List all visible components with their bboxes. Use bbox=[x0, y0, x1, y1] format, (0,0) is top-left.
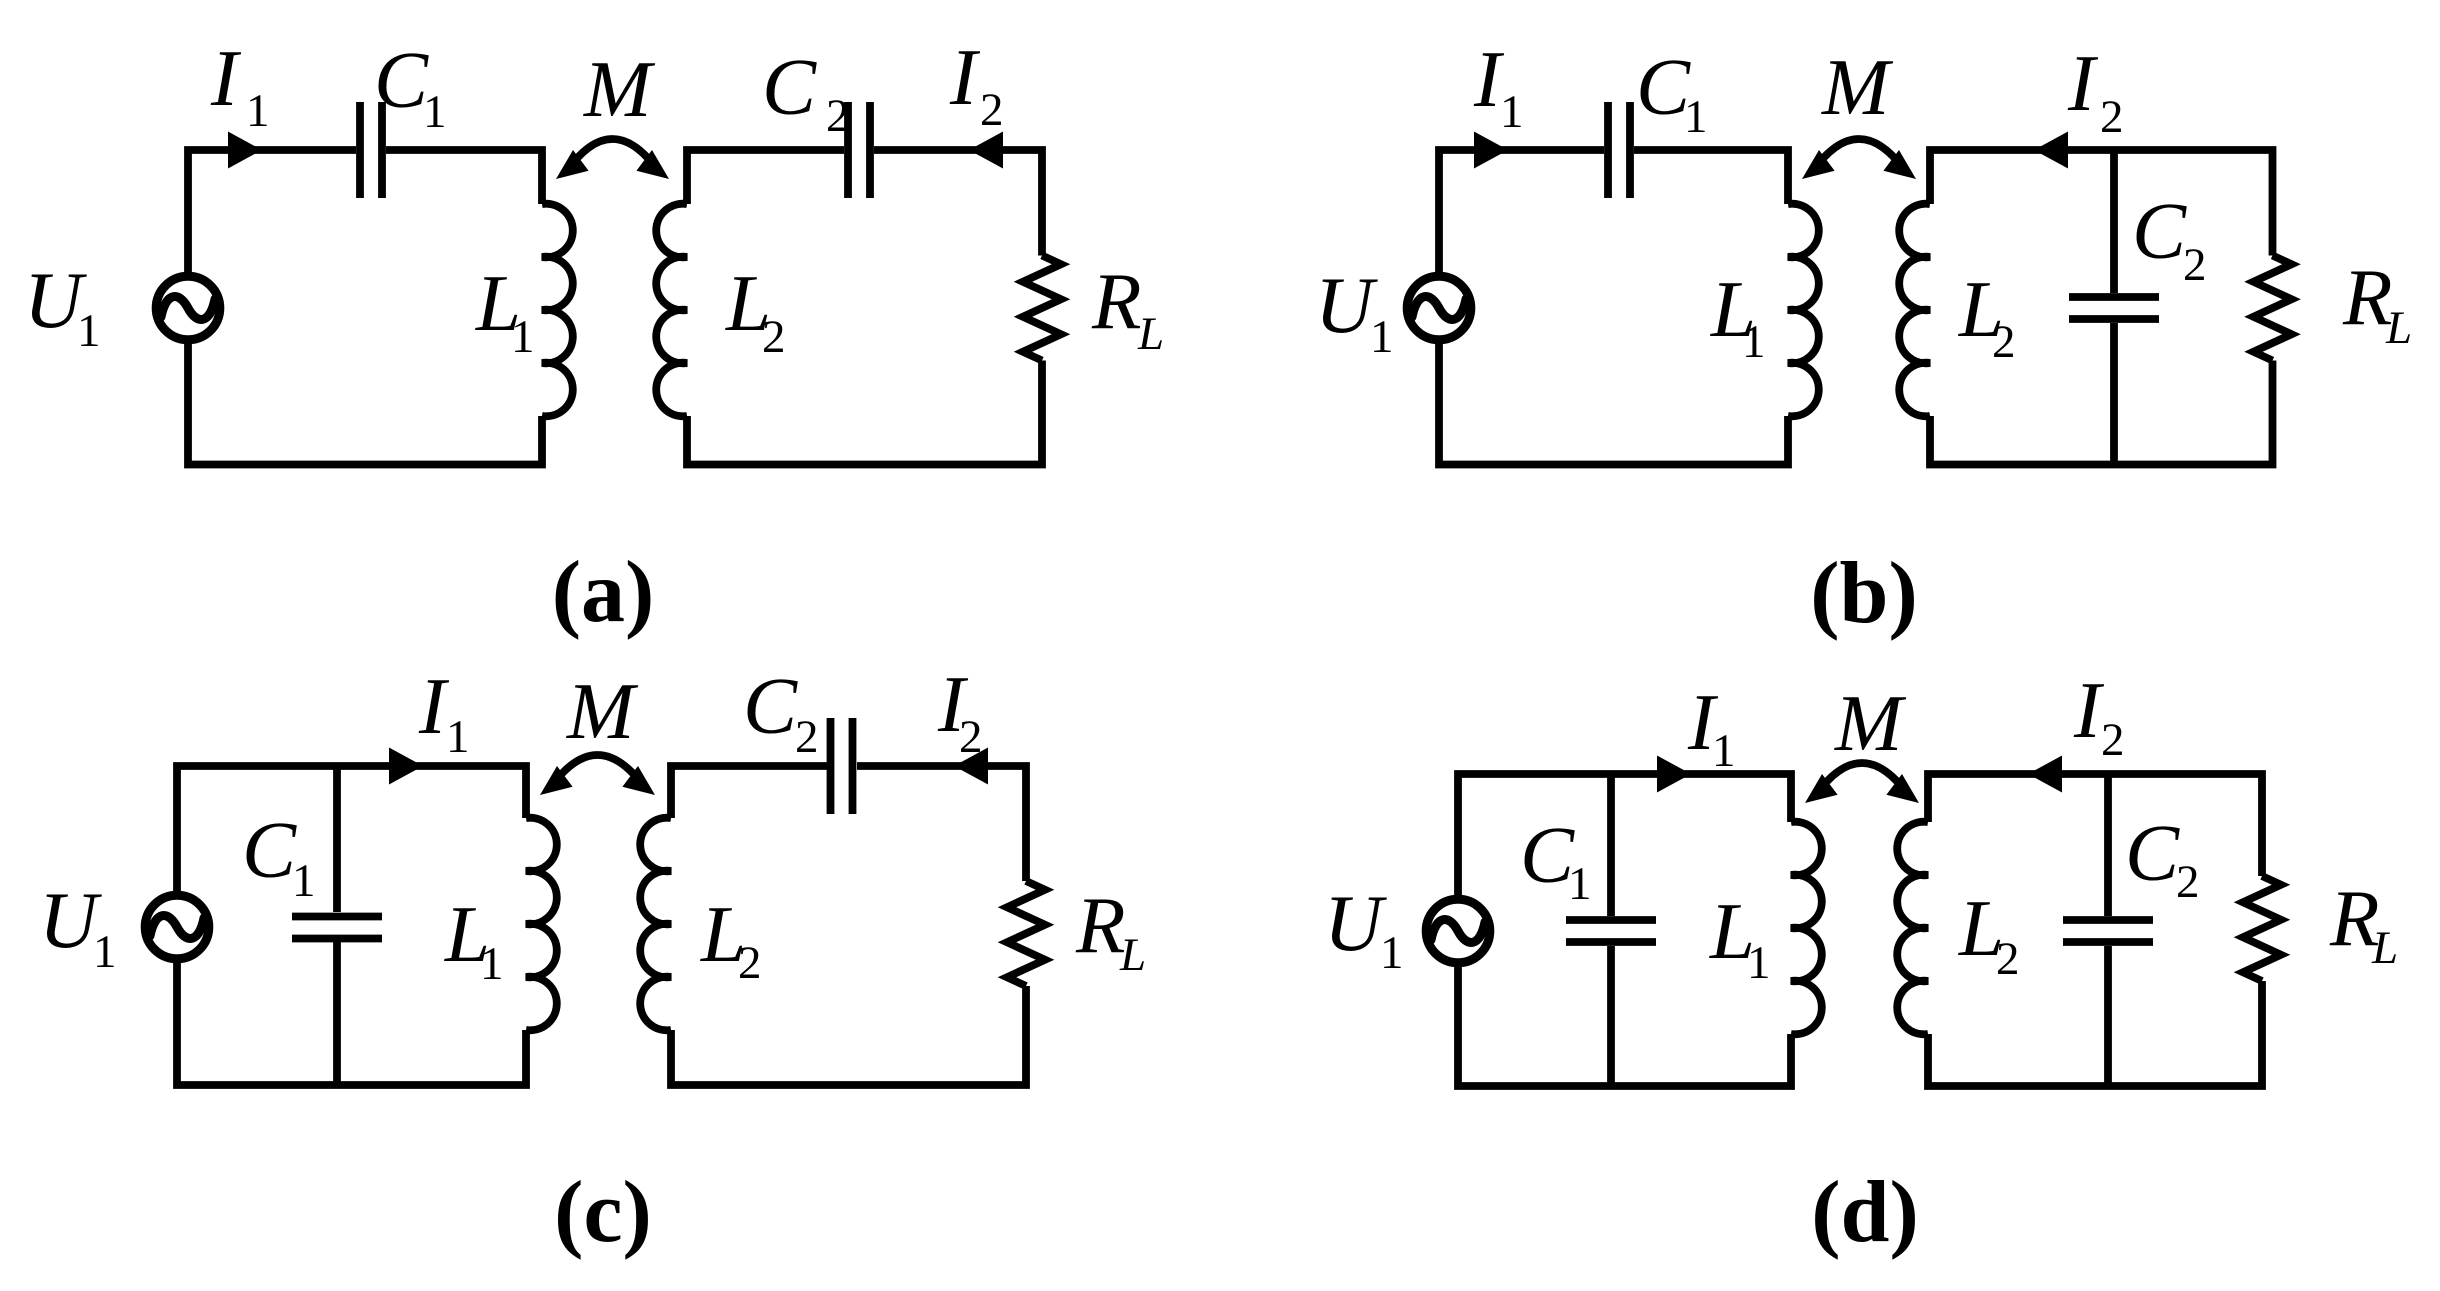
AC source U1 bbox=[145, 895, 209, 959]
svg-text:2: 2 bbox=[738, 937, 762, 989]
wire (d): C2 branch lower bbox=[2104, 946, 2112, 1086]
wire (b): L2 top to RL bbox=[1930, 150, 2273, 256]
svg-text:L: L bbox=[2385, 302, 2412, 354]
svg-text:M: M bbox=[566, 666, 639, 756]
svg-text:1: 1 bbox=[480, 938, 504, 990]
wire (c): RL to bottom to L2 bbox=[671, 986, 1026, 1085]
svg-text:(a): (a) bbox=[552, 544, 655, 641]
arrow I2 bbox=[2028, 756, 2062, 793]
svg-text:2: 2 bbox=[2176, 856, 2200, 908]
svg-text:L: L bbox=[1119, 929, 1146, 981]
wire (a): C2 to RL bbox=[874, 150, 1042, 256]
svg-text:U: U bbox=[1324, 878, 1387, 968]
svg-text:1: 1 bbox=[1568, 858, 1592, 910]
svg-text:C: C bbox=[1636, 42, 1691, 132]
wire (c): C2 to RL bbox=[857, 766, 1026, 881]
wire (d): C2 branch upper bbox=[2104, 774, 2112, 916]
inductor L2 bbox=[1899, 204, 1930, 417]
svg-text:C: C bbox=[743, 661, 798, 751]
arrow I2 bbox=[2034, 132, 2068, 169]
wire (c): L1 to bottom to source bbox=[177, 961, 526, 1086]
svg-text:1: 1 bbox=[1747, 937, 1771, 989]
arrow I1 bbox=[1474, 132, 1508, 169]
wire (c): C1 branch lower bbox=[333, 942, 341, 1085]
svg-text:C: C bbox=[242, 805, 297, 895]
wire (a): L1 to bottom to source bbox=[188, 342, 542, 465]
svg-text:(c): (c) bbox=[554, 1164, 652, 1261]
wire (b): RL to bottom to L2 bbox=[1930, 361, 2273, 465]
svg-text:1: 1 bbox=[423, 86, 447, 138]
svg-text:(b): (b) bbox=[1810, 545, 1918, 642]
AC source U1 bbox=[1426, 899, 1490, 963]
wire (a): C1 to L1 bbox=[386, 150, 542, 204]
svg-text:1: 1 bbox=[1742, 316, 1766, 368]
wire (c): source to top to L1 bbox=[177, 766, 526, 894]
arrow I1 bbox=[1657, 756, 1691, 793]
wire (d): C1 branch lower bbox=[1607, 946, 1615, 1086]
svg-text:2: 2 bbox=[2183, 239, 2207, 291]
capacitor C2 bbox=[844, 102, 852, 198]
inductor L1 bbox=[1788, 204, 1819, 417]
wire (b): C2 branch lower bbox=[2110, 323, 2118, 465]
arrow I2 bbox=[969, 132, 1003, 169]
svg-text:1: 1 bbox=[1712, 725, 1736, 777]
svg-text:2: 2 bbox=[795, 711, 819, 763]
wire (b): source to C1 bbox=[1439, 150, 1604, 275]
wire (d): L1 to bottom to source bbox=[1458, 965, 1791, 1087]
wire (c): C1 branch upper bbox=[333, 766, 341, 912]
svg-text:M: M bbox=[1834, 678, 1907, 768]
svg-text:2: 2 bbox=[1992, 316, 2016, 368]
mutual inductance M arrow bbox=[1812, 139, 1906, 172]
capacitor C1 bbox=[292, 913, 382, 921]
svg-text:1: 1 bbox=[511, 311, 535, 363]
svg-text:C: C bbox=[2125, 808, 2180, 898]
svg-text:1: 1 bbox=[292, 855, 316, 907]
AC source U1 bbox=[1407, 276, 1471, 340]
svg-text:C: C bbox=[1520, 810, 1575, 900]
svg-text:I: I bbox=[949, 32, 981, 122]
svg-text:1: 1 bbox=[446, 711, 470, 763]
svg-text:1: 1 bbox=[1500, 86, 1524, 138]
svg-text:C: C bbox=[2132, 186, 2187, 276]
resistor RL bbox=[1007, 881, 1045, 986]
mutual inductance M arrow bbox=[550, 755, 645, 788]
wire (d): L2 top to RL bbox=[1928, 774, 2262, 876]
svg-text:R: R bbox=[1091, 256, 1141, 346]
svg-text:2: 2 bbox=[959, 711, 983, 763]
svg-text:2: 2 bbox=[2101, 714, 2125, 766]
svg-text:I: I bbox=[2067, 38, 2099, 128]
svg-text:I: I bbox=[210, 33, 242, 123]
wire (d): source to top to L1 bbox=[1458, 774, 1791, 898]
wire (b): L1 to bottom to source bbox=[1439, 342, 1788, 465]
svg-text:2: 2 bbox=[1996, 933, 2020, 985]
capacitor C2 bbox=[827, 718, 835, 814]
svg-text:1: 1 bbox=[77, 305, 101, 357]
svg-text:C: C bbox=[374, 35, 429, 125]
inductor L2 bbox=[656, 204, 687, 417]
svg-text:2: 2 bbox=[826, 90, 850, 142]
inductor L2 bbox=[1897, 822, 1928, 1035]
svg-text:C: C bbox=[762, 42, 817, 132]
arrow I2 bbox=[954, 748, 988, 785]
inductor L2 bbox=[640, 818, 671, 1031]
svg-text:2: 2 bbox=[762, 311, 786, 363]
mutual inductance M arrow bbox=[566, 139, 659, 172]
capacitor C1 bbox=[356, 102, 364, 198]
svg-text:R: R bbox=[1075, 880, 1125, 970]
svg-text:R: R bbox=[2342, 252, 2392, 342]
svg-text:U: U bbox=[1315, 260, 1378, 350]
svg-text:2: 2 bbox=[980, 84, 1004, 136]
svg-text:1: 1 bbox=[93, 926, 117, 978]
svg-text:1: 1 bbox=[1370, 311, 1394, 363]
wire (d): C1 branch upper bbox=[1607, 774, 1615, 916]
inductor L1 bbox=[1791, 822, 1822, 1035]
arrow I1 bbox=[389, 748, 423, 785]
wire (a): RL to bottom to L2 bbox=[687, 361, 1042, 465]
AC source U1 bbox=[156, 276, 220, 340]
svg-text:2: 2 bbox=[2100, 91, 2124, 143]
svg-text:1: 1 bbox=[246, 85, 270, 137]
svg-text:(d): (d) bbox=[1811, 1164, 1919, 1261]
mutual inductance M arrow bbox=[1815, 763, 1909, 796]
svg-text:M: M bbox=[583, 44, 656, 134]
svg-text:1: 1 bbox=[1684, 91, 1708, 143]
inductor L1 bbox=[526, 818, 557, 1031]
wire (a): L2 to C2 bbox=[687, 150, 844, 204]
wire (a): source to C1 bbox=[188, 150, 356, 275]
capacitor C1 bbox=[1604, 102, 1612, 198]
resistor RL bbox=[2254, 256, 2292, 361]
resistor RL bbox=[2243, 876, 2281, 981]
wire (d): RL to bottom to L2 bbox=[1928, 981, 2262, 1086]
inductor L1 bbox=[542, 204, 573, 417]
wire (c): L2 to C2 bbox=[671, 766, 827, 818]
arrow I1 bbox=[228, 132, 262, 169]
svg-text:L: L bbox=[2371, 922, 2398, 974]
svg-text:1: 1 bbox=[1380, 927, 1404, 979]
svg-text:L: L bbox=[1137, 308, 1164, 360]
capacitor C2 bbox=[2069, 293, 2159, 301]
capacitor C1 bbox=[1566, 916, 1656, 924]
svg-text:M: M bbox=[1821, 42, 1894, 132]
capacitor C2 bbox=[2063, 916, 2153, 924]
wire (b): C2 branch upper bbox=[2110, 150, 2118, 293]
wire (b): C1 to L1 bbox=[1634, 150, 1788, 204]
resistor RL bbox=[1023, 256, 1061, 361]
